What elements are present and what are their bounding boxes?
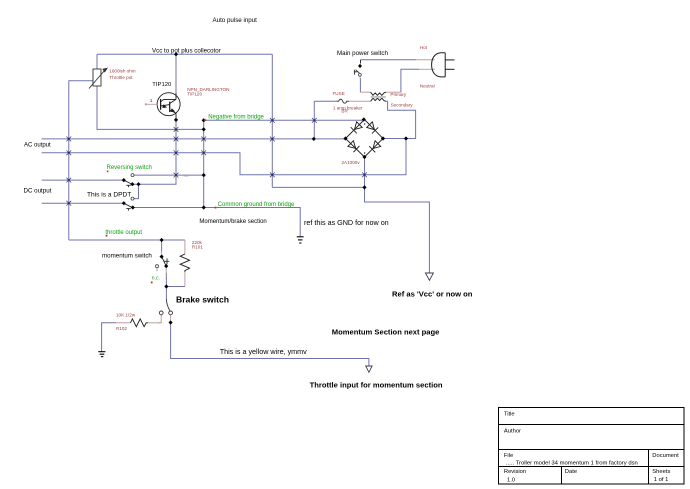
junction momentum output / R101 bbox=[164, 284, 168, 288]
wire crossover bbox=[134, 184, 139, 198]
wire crossing marker at 69,139 bbox=[66, 137, 71, 142]
wire crossing marker at 272,139 bbox=[270, 137, 275, 142]
contact main switch top bbox=[358, 64, 362, 68]
polarity dots bbox=[364, 123, 365, 124]
contact momentum switch throw bbox=[164, 264, 168, 268]
wire crossing marker at 176,129 bbox=[174, 127, 179, 132]
wire crossing marker at 176,139 bbox=[174, 137, 179, 142]
node bridge bottom (positive) bbox=[362, 155, 366, 159]
wire gnd column bbox=[203, 120, 205, 207]
svg-text:Secondary: Secondary bbox=[391, 102, 414, 107]
wire AC output upper bbox=[42, 138, 346, 140]
title block bbox=[499, 408, 685, 485]
contact reversing top throw bbox=[131, 174, 134, 177]
svg-text:Date: Date bbox=[565, 469, 577, 475]
svg-text:Ref as 'Vcc' or now on: Ref as 'Vcc' or now on bbox=[392, 290, 473, 299]
wire yellow wire run bbox=[171, 323, 369, 367]
potentiometer throttle pot bbox=[89, 68, 107, 88]
svg-text:Brake switch: Brake switch bbox=[176, 295, 229, 305]
wire crossing marker at 69,153 bbox=[66, 150, 71, 155]
svg-text:1600ish ohm: 1600ish ohm bbox=[109, 69, 135, 74]
svg-text:Main power switch: Main power switch bbox=[337, 50, 388, 57]
resistor R101 bbox=[180, 254, 189, 272]
contact pole1 throw bbox=[130, 182, 134, 186]
junction fuse to AC line bbox=[312, 137, 316, 141]
wire crossing marker at 176,175 bbox=[174, 173, 179, 178]
wire crossing marker at 204,139 bbox=[201, 137, 206, 142]
diode D4 bottom-right bbox=[373, 141, 381, 149]
junction throttle line to momentum switch bbox=[160, 238, 164, 242]
wire neutral bbox=[419, 68, 435, 70]
contact momentum switch input bbox=[160, 255, 164, 259]
junction collector-Vcc rail bbox=[174, 52, 178, 56]
pin transistor base bbox=[146, 103, 157, 105]
ground symbol right bbox=[297, 237, 304, 243]
junction Vcc rail to bridge positive bbox=[362, 185, 366, 189]
wire reversing switch top throw bbox=[134, 174, 204, 176]
AC plug bbox=[432, 53, 455, 77]
svg-text:Reversing switch: Reversing switch bbox=[107, 165, 152, 171]
wire pot wiper bbox=[69, 81, 93, 240]
wire to brake switch bbox=[165, 287, 167, 300]
wire momentum throw down bbox=[165, 268, 167, 274]
contact pole1 input bbox=[122, 178, 126, 182]
svg-text:..... Troller model 34 momentu: ..... Troller model 34 momentum 1 from f… bbox=[506, 461, 638, 467]
wire crossing marker at 314,120 bbox=[312, 118, 317, 123]
svg-text:File: File bbox=[504, 453, 513, 459]
ground symbol left bbox=[98, 352, 105, 357]
svg-text:Vcc to pot plus collecotor: Vcc to pot plus collecotor bbox=[152, 47, 221, 54]
wire Vcc right drop bbox=[271, 54, 273, 187]
svg-text:10K 1/2w: 10K 1/2w bbox=[116, 312, 136, 317]
svg-text:DC output: DC output bbox=[24, 188, 52, 195]
svg-text:TIP120: TIP120 bbox=[187, 91, 202, 96]
svg-text:Sheets: Sheets bbox=[652, 469, 670, 475]
junction common ground to GND column bbox=[202, 205, 206, 209]
contact brake switch left bbox=[159, 311, 163, 315]
svg-text:Neutral: Neutral bbox=[420, 83, 435, 88]
wire fuse line bbox=[314, 100, 336, 102]
wire DC output upper bbox=[42, 179, 124, 181]
arrow Vcc ref bbox=[425, 273, 433, 280]
wire crossing marker at 272,175 bbox=[270, 172, 275, 177]
momentum switch lever bbox=[162, 257, 169, 265]
wire brake left contact stub bbox=[158, 315, 162, 323]
svg-text:1.0: 1.0 bbox=[507, 477, 515, 483]
wire throttle output bbox=[69, 239, 185, 241]
svg-text:Title: Title bbox=[504, 411, 515, 417]
node bridge left (AC) bbox=[343, 136, 347, 140]
wire fuse drop to AC bbox=[313, 101, 315, 139]
wire common ground from bridge bbox=[133, 208, 300, 237]
reversing switch DPDT pole1 lever bbox=[124, 180, 131, 187]
wire crossing marker at 69,203 bbox=[66, 201, 71, 206]
wire R102 left pin bbox=[116, 322, 130, 324]
svg-text:Revision: Revision bbox=[504, 469, 526, 475]
wire DC output lower bbox=[42, 202, 124, 204]
wire bridge right to secondary bbox=[383, 101, 416, 138]
fuse breaker bbox=[337, 99, 350, 103]
svg-text:momentum switch: momentum switch bbox=[102, 252, 152, 259]
wire crossing marker at 204,153 bbox=[201, 150, 206, 155]
bridge rectifier 2A1000v bbox=[346, 120, 384, 158]
junction dots bbox=[122, 52, 408, 324]
wire brake right contact stub bbox=[170, 315, 172, 323]
wire transistor collector bbox=[175, 54, 177, 93]
contact momentum unused throw bbox=[156, 265, 159, 268]
wire Vcc to bridge bottom bbox=[272, 186, 364, 188]
resistor R102 bbox=[131, 319, 149, 327]
svg-text:1 of 1: 1 of 1 bbox=[654, 477, 669, 483]
svg-text:Throttle input for momentum se: Throttle input for momentum section bbox=[310, 380, 443, 389]
wire hot bbox=[361, 59, 417, 61]
contact brake switch right bbox=[169, 311, 173, 315]
junction top throw to GND column bbox=[202, 173, 206, 177]
svg-text:BR: BR bbox=[341, 109, 348, 114]
svg-text:This is a yellow wire, ymmv: This is a yellow wire, ymmv bbox=[220, 347, 307, 356]
diode D3 bottom-left bbox=[348, 141, 356, 149]
svg-text:ref this as GND for now on: ref this as GND for now on bbox=[304, 218, 389, 227]
wire crossing marker at 272,120 bbox=[270, 118, 275, 123]
svg-text:Momentum/brake section: Momentum/brake section bbox=[199, 219, 266, 225]
svg-text:Hot: Hot bbox=[420, 45, 428, 50]
svg-text:Primary: Primary bbox=[390, 92, 407, 97]
svg-text:1: 1 bbox=[150, 98, 153, 104]
wire switch to primary left bbox=[359, 78, 361, 92]
svg-text:Auto pulse input: Auto pulse input bbox=[213, 17, 258, 24]
wire R102 right pin bbox=[148, 322, 161, 324]
wire brake switch lever bbox=[166, 299, 170, 311]
wire Vcc top rail bbox=[97, 53, 272, 55]
wire momentum switch drop bbox=[161, 240, 163, 251]
junction brake switch output bbox=[169, 320, 173, 324]
wire R101 top pin bbox=[184, 240, 186, 254]
wire crossing marker at 69,180 bbox=[66, 178, 71, 183]
X junction markers bbox=[66, 118, 367, 206]
node bridge right (AC) bbox=[381, 136, 385, 140]
svg-text:R102: R102 bbox=[116, 326, 127, 331]
contact pole2 input bbox=[122, 201, 126, 205]
transformer T1 bbox=[371, 92, 386, 101]
svg-text:Common ground from bridge: Common ground from bridge bbox=[218, 202, 295, 208]
main power switch bbox=[354, 70, 360, 75]
transformer core bbox=[371, 97, 386, 98]
wire bottom link to R101 bbox=[166, 286, 185, 288]
diode D2 top-right bbox=[367, 122, 375, 130]
wire pot top bbox=[96, 54, 98, 69]
reversing switch DPDT pole2 lever bbox=[124, 204, 131, 211]
contact crossover throw bbox=[131, 197, 134, 200]
transistor Q1 TIP120 bbox=[157, 93, 180, 118]
wire negative from bridge bbox=[204, 119, 364, 121]
junction crossover bbox=[136, 182, 140, 186]
svg-text:2A1000v: 2A1000v bbox=[342, 160, 361, 165]
svg-text:Author: Author bbox=[504, 428, 521, 434]
wire AC output lower bbox=[42, 139, 406, 175]
junction negative-from-bridge / GND column bbox=[202, 118, 206, 122]
contact pole2 throw bbox=[131, 205, 135, 209]
junction pot bottom to GND column bbox=[202, 127, 206, 131]
svg-text:n.c.: n.c. bbox=[152, 276, 160, 282]
wire bridge bottom to Vcc arrow bbox=[365, 157, 430, 273]
stray mark bbox=[184, 176, 189, 177]
junction emitter node bbox=[174, 118, 178, 122]
wire crossing marker at 364,175 bbox=[362, 172, 367, 177]
wire R102 to ground bbox=[102, 323, 117, 352]
svg-text:throttle output: throttle output bbox=[105, 230, 142, 236]
arrow throttle input bbox=[366, 366, 372, 372]
svg-text:Negative from bridge: Negative from bridge bbox=[208, 114, 264, 120]
svg-text:Throttle pot: Throttle pot bbox=[109, 75, 133, 80]
svg-text:FUSE: FUSE bbox=[333, 91, 345, 96]
svg-text:AC output: AC output bbox=[24, 142, 51, 148]
diode D1 top-left bbox=[355, 122, 363, 130]
svg-text:TIP120: TIP120 bbox=[152, 82, 172, 88]
svg-text:Momentum Section next page: Momentum Section next page bbox=[332, 328, 440, 337]
junction AC lower to secondary link bbox=[404, 136, 408, 140]
wire pole1 to emitter column bbox=[132, 120, 176, 184]
wire crossing marker at 176,153 bbox=[174, 150, 179, 155]
wire R101 bottom pin bbox=[184, 272, 186, 286]
node bridge top (negative) bbox=[362, 117, 366, 121]
svg-text:1 amp breaker: 1 amp breaker bbox=[333, 106, 363, 111]
svg-text:This is a DPDT: This is a DPDT bbox=[87, 192, 131, 199]
svg-text:R101: R101 bbox=[192, 244, 203, 249]
svg-text:Document: Document bbox=[652, 453, 679, 459]
contact main switch bottom bbox=[359, 73, 362, 76]
wire pot bottom to gnd column bbox=[97, 86, 204, 129]
